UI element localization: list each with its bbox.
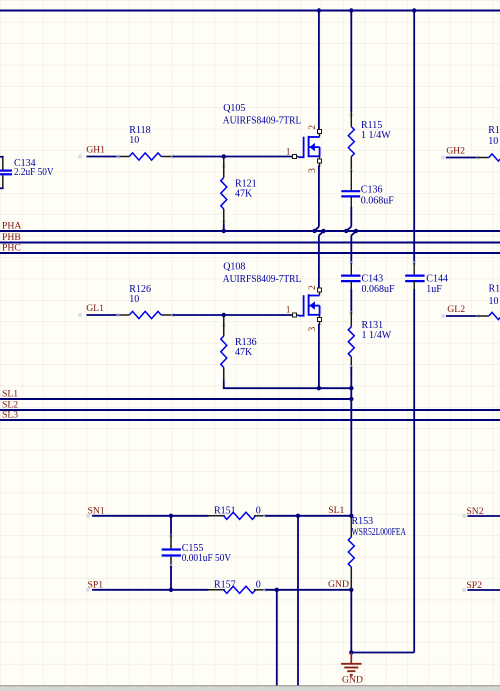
svg-text:C143: C143 xyxy=(362,273,384,284)
node junction SP1 column x277 xyxy=(275,588,279,592)
wire SL2 bus rail xyxy=(0,409,500,411)
wire GH2 xyxy=(441,156,445,160)
svg-text:Q108: Q108 xyxy=(223,261,245,272)
node junction top rail / Q105 drain column xyxy=(317,8,321,12)
node junction SL1 rail xyxy=(349,397,353,401)
wire SP1 row xyxy=(86,588,90,592)
wire R151 to R153 node xyxy=(265,515,351,517)
svg-text:SL1: SL1 xyxy=(328,505,344,516)
svg-text:2.2uF 50V: 2.2uF 50V xyxy=(14,167,54,178)
node junction GND corner xyxy=(350,651,354,655)
capacitor C143 xyxy=(341,275,360,277)
node junction PHA/C143 xyxy=(354,229,358,233)
svg-text:2: 2 xyxy=(308,125,318,130)
wire SL1 bus rail xyxy=(0,398,351,400)
resistor R119 (clipped) xyxy=(477,157,489,159)
svg-text:1uF: 1uF xyxy=(426,284,442,295)
svg-text:3: 3 xyxy=(308,327,318,332)
svg-text:3: 3 xyxy=(308,168,318,173)
resistor R153 xyxy=(350,516,352,537)
node junction top rail / C144 column xyxy=(412,8,416,12)
node junction R136 wire / C143 column xyxy=(349,386,353,390)
resistor R136 xyxy=(222,323,226,327)
node junction GL1/R136 xyxy=(222,313,226,317)
wire SL3 bus rail xyxy=(0,419,500,421)
wire C143 to R131 xyxy=(350,281,352,290)
svg-text:SL3: SL3 xyxy=(2,409,18,420)
svg-text:GL2: GL2 xyxy=(447,304,465,315)
svg-text:0.068uF: 0.068uF xyxy=(362,284,396,295)
svg-text:SL1: SL1 xyxy=(2,388,18,399)
svg-text:PHB: PHB xyxy=(2,232,21,243)
wire PHA to C143 xyxy=(351,231,356,235)
wire R153 bottom to GND symbol xyxy=(350,590,352,653)
svg-text:1: 1 xyxy=(286,306,291,316)
capacitor C144 xyxy=(405,275,424,277)
bottom window border xyxy=(0,686,500,691)
wire R126 to Q108 gate xyxy=(173,314,293,316)
wire SP2 xyxy=(462,588,466,592)
wire C143 column down to R153 xyxy=(350,388,352,516)
svg-text:PHC: PHC xyxy=(2,242,21,253)
wire C134 top stub xyxy=(0,156,4,158)
wire C136 to PHA xyxy=(350,197,352,209)
svg-text:R153: R153 xyxy=(352,516,374,527)
svg-text:1 1/4W: 1 1/4W xyxy=(362,330,392,341)
wire top power rail xyxy=(0,10,500,12)
node junction C136/PHA xyxy=(344,229,348,233)
node junction SL1 wire / R153 xyxy=(349,514,353,518)
svg-text:1: 1 xyxy=(286,147,291,157)
pin 1 Q108 gate xyxy=(293,313,297,317)
capacitor C136 xyxy=(341,190,360,192)
wire C134 bottom stub xyxy=(0,187,4,189)
svg-text:SP1: SP1 xyxy=(88,579,104,590)
svg-text:GH2: GH2 xyxy=(446,145,465,156)
node junction GND/R153 xyxy=(349,588,353,592)
wire GL1 to R126 xyxy=(78,313,82,317)
svg-text:GH1: GH1 xyxy=(86,144,105,155)
pin 3 Q105 source xyxy=(318,159,322,163)
wire R136 to source node xyxy=(224,382,352,388)
svg-text:0.068uF: 0.068uF xyxy=(361,195,395,206)
svg-text:WSR52L000FEA: WSR52L000FEA xyxy=(352,527,407,538)
node junction SN1/C155 xyxy=(169,514,173,518)
capacitor C134 xyxy=(2,157,4,170)
wire SN1 row xyxy=(86,514,90,518)
wire PHA down to Q108 drain xyxy=(319,231,324,235)
resistor R118 xyxy=(119,156,129,158)
pin 1 Q105 gate xyxy=(293,155,297,159)
svg-text:0: 0 xyxy=(256,580,261,591)
svg-text:R151: R151 xyxy=(214,506,236,517)
wire R157 to GND node xyxy=(265,589,351,591)
wire PHB bus rail xyxy=(0,242,500,244)
resistor R127 (clipped) xyxy=(477,315,489,317)
svg-text:Q105: Q105 xyxy=(223,103,245,114)
svg-text:2: 2 xyxy=(308,285,318,290)
node junction SN1 column x298 xyxy=(296,514,300,518)
svg-text:AUIRFS8409-7TRL: AUIRFS8409-7TRL xyxy=(223,274,301,285)
svg-text:SN1: SN1 xyxy=(88,505,105,516)
svg-text:C144: C144 xyxy=(426,273,448,284)
svg-text:C136: C136 xyxy=(361,184,383,195)
svg-text:GL1: GL1 xyxy=(86,303,104,314)
svg-text:R119: R119 xyxy=(488,125,500,136)
node junction Q105 source/PHA xyxy=(312,229,316,233)
transistor Q108 xyxy=(298,315,303,317)
wire C155 to SP1 xyxy=(170,557,172,567)
wire SP1 column down xyxy=(276,590,278,686)
resistor R157 xyxy=(208,589,225,591)
wire GH1 to R118 xyxy=(78,155,82,159)
svg-text:10: 10 xyxy=(129,294,139,305)
wire R131 to SL1 node xyxy=(350,365,354,369)
svg-text:1 1/4W: 1 1/4W xyxy=(361,130,391,141)
wire Q105 source down to PHA xyxy=(318,166,320,227)
resistor R151 xyxy=(208,515,225,517)
wire R121 to PHA xyxy=(223,224,225,231)
svg-text:PHA: PHA xyxy=(2,220,21,231)
resistor R126 xyxy=(119,314,129,316)
node junction SP1/C155 xyxy=(169,588,173,592)
svg-text:AUIRFS8409-7TRL: AUIRFS8409-7TRL xyxy=(223,116,301,127)
svg-text:GND: GND xyxy=(328,579,349,590)
wire GL2 xyxy=(441,314,445,318)
svg-text:10: 10 xyxy=(129,135,139,146)
wire PHA bus rail xyxy=(0,230,500,232)
svg-text:0.001uF 50V: 0.001uF 50V xyxy=(182,553,232,564)
pin 3 Q108 source xyxy=(318,318,322,322)
svg-text:0: 0 xyxy=(256,506,261,517)
wire C144 down to GND corner xyxy=(413,281,415,290)
node junction R121/PHA xyxy=(222,229,226,233)
svg-text:47K: 47K xyxy=(235,189,253,200)
node junction Q108 source wire xyxy=(317,386,321,390)
svg-text:47K: 47K xyxy=(235,347,253,358)
pin 2 Q105 drain xyxy=(318,130,322,134)
resistor R131 xyxy=(350,312,352,327)
svg-text:R157: R157 xyxy=(214,580,236,591)
wire Q105 drain to top rail xyxy=(318,11,320,130)
wire top rail to C144 xyxy=(413,12,415,265)
svg-text:R127: R127 xyxy=(489,284,500,295)
resistor R121 xyxy=(222,165,226,169)
transistor Q105 xyxy=(298,156,303,158)
node junction GH1/R121 xyxy=(222,154,226,158)
wire Q108 source down xyxy=(318,324,320,388)
ground symbol xyxy=(350,653,352,664)
resistor R115 xyxy=(350,113,354,117)
svg-text:10: 10 xyxy=(489,296,499,307)
wire R118 to Q105 gate xyxy=(173,156,293,158)
svg-text:GND: GND xyxy=(342,674,363,685)
wire GND to C144 column xyxy=(351,652,414,654)
pin 2 Q108 drain xyxy=(318,288,322,292)
wire SN1 column down xyxy=(297,516,299,687)
node junction PHA/Q108 drain xyxy=(321,229,325,233)
wire R115 to C136 xyxy=(350,169,354,173)
wire SN2 xyxy=(462,514,466,518)
svg-text:10: 10 xyxy=(488,136,498,147)
wire PHC bus rail xyxy=(0,252,500,254)
node junction top rail / R115 column xyxy=(349,8,353,12)
capacitor C155 xyxy=(170,516,172,536)
